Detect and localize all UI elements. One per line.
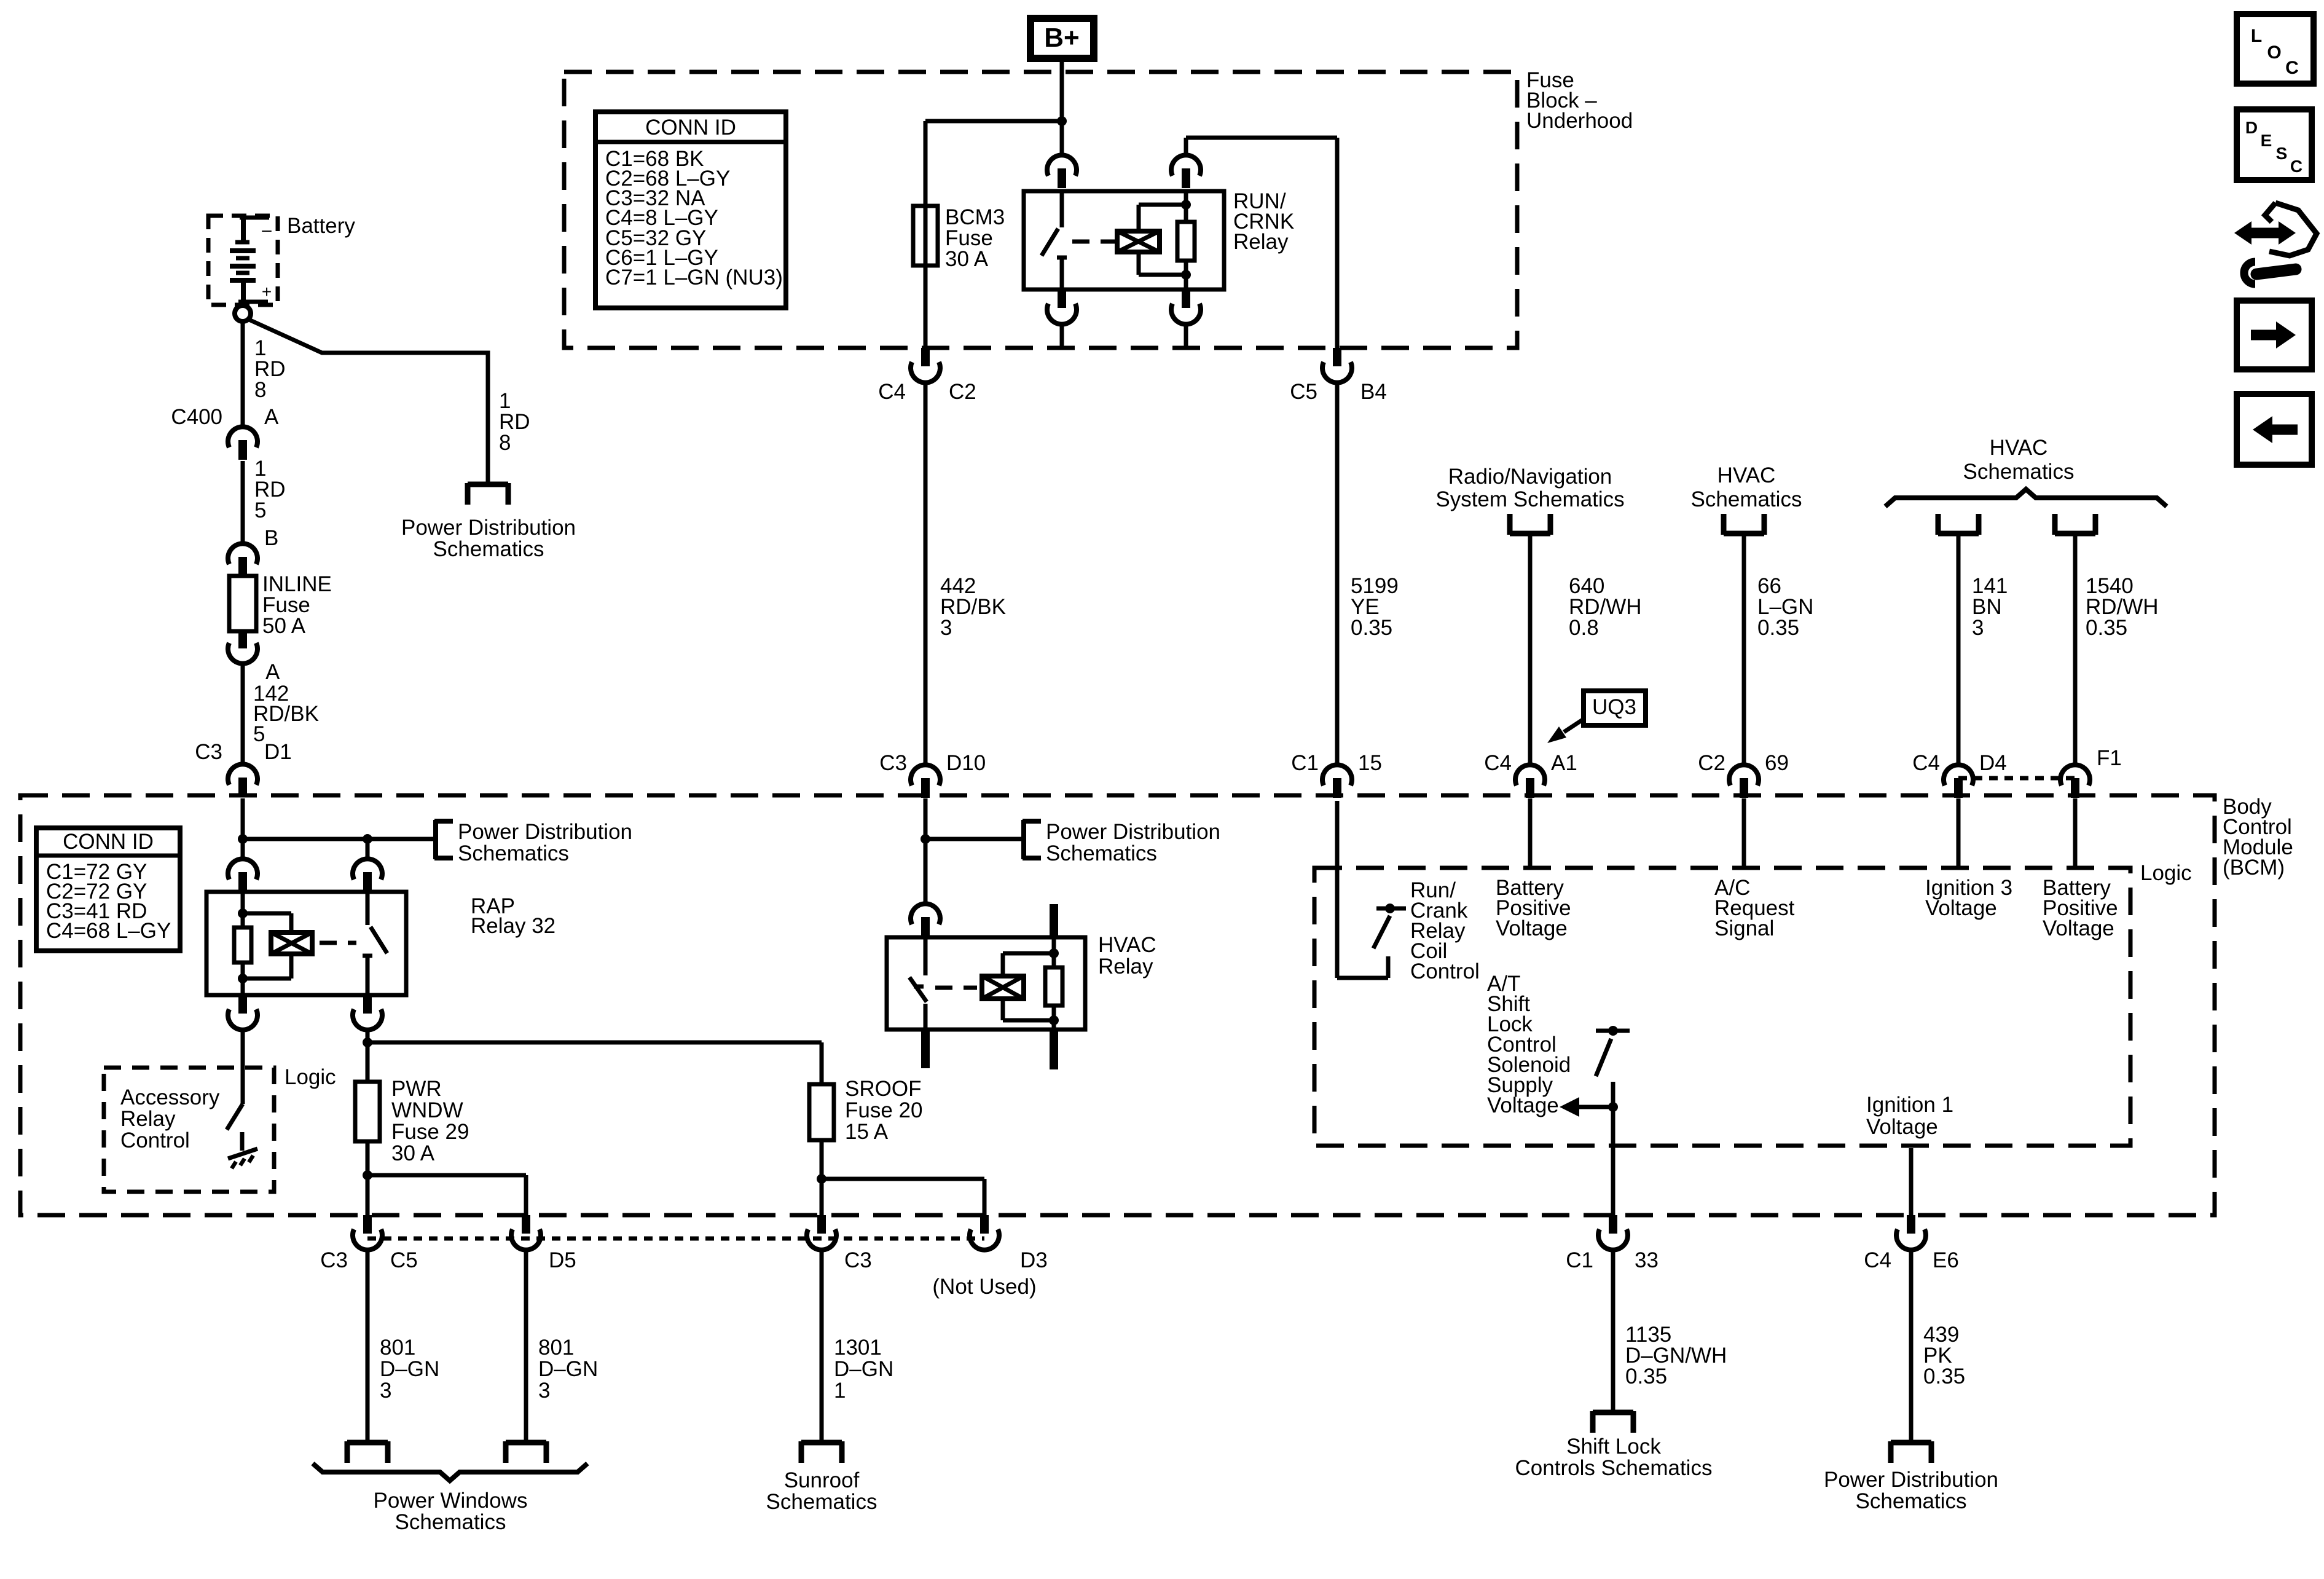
svg-text:15: 15: [1358, 751, 1382, 775]
svg-text:S: S: [2276, 144, 2288, 163]
icon next-page box: [2237, 301, 2312, 369]
svg-text:C: C: [2290, 157, 2302, 176]
wire RAP right down: [366, 1028, 370, 1082]
wire BCM3 fuse drop: [924, 121, 928, 348]
svg-text:3: 3: [940, 616, 952, 640]
node RAP resistor top: [238, 908, 248, 918]
svg-text:(BCM): (BCM): [2223, 856, 2285, 880]
dotted line C4 connector D4-F1: [1958, 776, 2075, 781]
relay coil (X box): [1117, 231, 1160, 252]
RAP coil dashed link: [320, 941, 356, 945]
svg-text:0.35: 0.35: [2086, 616, 2127, 640]
svg-text:(Not Used): (Not Used): [932, 1275, 1036, 1299]
svg-text:D10: D10: [946, 751, 986, 775]
inner logic dashed box: [1314, 868, 2130, 1146]
HVAC coil dashed link: [935, 986, 977, 990]
svg-text:C4: C4: [878, 380, 906, 404]
connector C3|C5 (cup): [363, 1215, 372, 1234]
wire battery positive voltage (F1): [2073, 798, 2078, 868]
svg-text:Underhood: Underhood: [1526, 109, 1633, 133]
svg-text:B4: B4: [1360, 380, 1387, 404]
connector C3|D10 (dome): [911, 765, 940, 786]
svg-text:50 A: 50 A: [262, 614, 306, 638]
HVAC bottom-right stub pin: [1050, 1030, 1058, 1069]
termination staple 439: [1891, 1440, 1931, 1446]
connector C5|B4: [1333, 348, 1341, 366]
source staple 141: [1938, 531, 1979, 537]
source staple HVAC: [1724, 531, 1764, 537]
svg-text:F1: F1: [2097, 746, 2122, 770]
relay right pin wire: [1184, 191, 1188, 222]
svg-text:Power Windows: Power Windows: [374, 1489, 528, 1513]
relay coil top link: [1137, 205, 1141, 231]
node PWR WNDW / SROOF junction: [363, 1038, 372, 1047]
svg-text:–: –: [262, 220, 272, 239]
offpage Power Distribution (RAP): [433, 820, 438, 859]
svg-text:3: 3: [1972, 616, 1984, 640]
connector HVAC pin top-left (dome): [911, 904, 940, 924]
svg-text:Battery: Battery: [287, 214, 355, 238]
svg-text:SROOF: SROOF: [845, 1077, 921, 1101]
relay switch blade: [1042, 229, 1058, 256]
wire RAP right pin drop: [366, 839, 370, 860]
connector relay pin 86 (dome): [1047, 155, 1077, 176]
relay coil dashed link: [1072, 240, 1115, 244]
relay resistor: [1177, 222, 1195, 261]
node junction B+/BCM3: [1057, 116, 1067, 126]
svg-text:801: 801: [380, 1336, 415, 1360]
svg-text:+: +: [262, 282, 272, 301]
wire ignition 3 (D4): [1957, 798, 1961, 868]
wire 801 right: [524, 1248, 528, 1443]
wire B+ feed: [1060, 62, 1064, 156]
connector C400 (dome): [228, 427, 257, 447]
wire 1540 RD/WH: [2073, 534, 2078, 766]
RAP resistor: [234, 927, 251, 963]
battery positive B+ terminal box: [1030, 18, 1094, 58]
source staple 1540: [2055, 531, 2095, 537]
svg-text:5: 5: [253, 722, 265, 746]
svg-text:C4: C4: [1864, 1248, 1891, 1272]
accessory switch stub: [240, 1132, 245, 1151]
wire C400 to B: [241, 461, 245, 545]
svg-text:UQ3: UQ3: [1592, 695, 1636, 719]
svg-text:Voltage: Voltage: [2043, 916, 2114, 940]
wire A/C request (69): [1742, 798, 1746, 868]
svg-text:L: L: [2251, 26, 2262, 46]
fuse PWR WNDW 29: [355, 1082, 380, 1141]
connector C4|D4 (dome): [1944, 765, 1973, 786]
connector RAP bottom left (cup): [238, 995, 247, 1014]
svg-text:A: A: [264, 405, 279, 429]
BCM dashed box: [20, 795, 2215, 1215]
wire to power distribution (HVAC): [925, 837, 1024, 841]
HVAC switch upper stub: [924, 937, 928, 975]
svg-text:PWR: PWR: [391, 1077, 442, 1101]
HVAC resistor: [1045, 967, 1062, 1006]
svg-text:801: 801: [538, 1336, 574, 1360]
wire 141 BN: [1957, 534, 1961, 766]
accessory relay control dashed box: [104, 1068, 274, 1192]
svg-text:Relay: Relay: [120, 1107, 176, 1131]
battery dashed box: [208, 216, 278, 305]
svg-text:30 A: 30 A: [391, 1141, 435, 1165]
svg-text:B: B: [264, 526, 278, 550]
icon DESC box: [2237, 109, 2312, 180]
svg-text:C3: C3: [320, 1248, 348, 1272]
svg-text:Voltage: Voltage: [1866, 1115, 1938, 1139]
UQ3 option box: [1584, 691, 1646, 725]
wire fuse to C3|D1: [241, 662, 245, 765]
svg-text:33: 33: [1635, 1248, 1659, 1272]
svg-text:Logic: Logic: [2140, 861, 2192, 885]
accessory switch blade: [227, 1104, 243, 1130]
svg-text:C5: C5: [1290, 380, 1317, 404]
wire Ignition 1: [1909, 1148, 1914, 1215]
svg-text:Schematics: Schematics: [1963, 460, 2075, 484]
brace power windows: [313, 1463, 587, 1481]
HVAC coil bottom link: [1001, 999, 1005, 1020]
svg-text:System Schematics: System Schematics: [1435, 487, 1624, 511]
wire 442 RD/BK: [924, 382, 928, 766]
node PWR WNDW junction: [363, 1170, 372, 1180]
svg-text:A1: A1: [1551, 751, 1577, 775]
node RAP right junction: [363, 834, 372, 844]
RAP coil top link: [243, 912, 291, 916]
svg-text:0.8: 0.8: [1569, 616, 1599, 640]
RAP switch lower stub: [366, 956, 370, 995]
svg-text:A: A: [265, 660, 280, 684]
HVAC switch lower stub: [924, 1004, 928, 1030]
svg-text:15 A: 15 A: [845, 1120, 889, 1144]
svg-text:Accessory: Accessory: [120, 1085, 220, 1109]
wire battery to node: [241, 304, 245, 307]
wire A/T solenoid supply: [1611, 1082, 1615, 1215]
svg-text:C4: C4: [1484, 751, 1512, 775]
svg-text:Control: Control: [120, 1128, 190, 1152]
svg-text:HVAC: HVAC: [1098, 933, 1156, 957]
connector D3 not used (cup): [980, 1215, 989, 1234]
svg-text:Schematics: Schematics: [766, 1490, 877, 1514]
svg-text:E: E: [2261, 131, 2272, 150]
svg-text:O: O: [2267, 42, 2281, 63]
connector relay pin 87 (cup): [1182, 289, 1190, 308]
fuse BCM3 30A: [913, 206, 938, 266]
svg-text:E6: E6: [1933, 1248, 1959, 1272]
RAP coil bottom link: [289, 954, 294, 979]
connector C1|33 (cup): [1609, 1215, 1617, 1234]
connector F1 (dome): [2060, 765, 2090, 786]
offpage Power Distribution (battery): [468, 482, 508, 487]
svg-text:Radio/Navigation: Radio/Navigation: [1448, 465, 1612, 489]
svg-text:Sunroof: Sunroof: [784, 1468, 860, 1492]
wire below PWR WNDW fuse: [366, 1141, 370, 1215]
RAP switch upper stub: [366, 892, 370, 925]
wire C3|D1 into BCM: [241, 798, 245, 860]
node battery splice (circle): [235, 305, 251, 321]
wire C1|15 into BCM: [1335, 801, 1340, 978]
wire relay pin30 stub: [1060, 324, 1064, 348]
svg-text:C3: C3: [879, 751, 907, 775]
node HVAC powerdist junction: [921, 834, 930, 844]
svg-text:Signal: Signal: [1714, 916, 1774, 940]
svg-text:Voltage: Voltage: [1925, 896, 1997, 920]
HVAC resistor wire: [1052, 937, 1056, 967]
svg-text:1: 1: [834, 1379, 846, 1403]
svg-text:C2: C2: [1698, 751, 1725, 775]
wire 801 left: [366, 1248, 370, 1443]
svg-text:D: D: [2245, 118, 2258, 137]
svg-text:HVAC: HVAC: [1990, 436, 2048, 460]
RAP coil (X box): [271, 932, 312, 954]
termination staple 1135: [1593, 1410, 1633, 1416]
svg-text:C3: C3: [844, 1248, 872, 1272]
svg-text:Logic: Logic: [285, 1065, 336, 1089]
svg-text:Voltage: Voltage: [1496, 916, 1568, 940]
svg-text:Shift Lock: Shift Lock: [1566, 1435, 1661, 1459]
run/crank switch L-wire: [1337, 976, 1388, 980]
svg-text:Fuse 29: Fuse 29: [391, 1120, 469, 1144]
svg-text:Relay 32: Relay 32: [471, 914, 555, 938]
RAP switch blade: [371, 927, 387, 953]
connector RAP pin right (dome): [353, 859, 382, 880]
termination staple 801 left: [347, 1440, 388, 1446]
fuse INLINE bottom pin+cup: [238, 631, 247, 648]
svg-text:3: 3: [538, 1379, 550, 1403]
wire 439: [1909, 1248, 1914, 1443]
svg-text:B+: B+: [1044, 23, 1079, 53]
wire to SROOF fuse: [367, 1041, 822, 1045]
wire 1135: [1611, 1248, 1615, 1412]
ground (accessory): [228, 1149, 257, 1159]
svg-text:8: 8: [254, 378, 266, 402]
svg-text:Voltage: Voltage: [1487, 1093, 1559, 1117]
node HVAC coil bottom: [1049, 1015, 1059, 1025]
svg-text:Schematics: Schematics: [1856, 1489, 1967, 1513]
svg-text:69: 69: [1765, 751, 1789, 775]
relay coil bottom link: [1137, 252, 1141, 275]
relay HVAC box: [887, 937, 1085, 1030]
fuse INLINE 50A: [229, 576, 256, 631]
svg-text:Power Distribution: Power Distribution: [1046, 820, 1220, 844]
wire 1301: [820, 1248, 824, 1443]
connector C4|E6 (cup): [1907, 1215, 1915, 1234]
svg-text:Schematics: Schematics: [458, 841, 569, 865]
svg-text:Power Distribution: Power Distribution: [1824, 1468, 1998, 1492]
svg-text:D4: D4: [1979, 751, 2007, 775]
svg-text:D–GN: D–GN: [380, 1357, 439, 1381]
A/T arrow: [1578, 1105, 1613, 1109]
svg-text:Control: Control: [1410, 959, 1480, 983]
A/T contact dot: [1608, 1026, 1618, 1036]
svg-text:1301: 1301: [834, 1336, 882, 1360]
svg-text:C1: C1: [1566, 1248, 1593, 1272]
run/crank contact dot: [1385, 904, 1395, 913]
svg-text:30 A: 30 A: [945, 247, 989, 271]
icon LOC box: [2237, 14, 2314, 84]
svg-text:D1: D1: [264, 740, 292, 764]
node RAP resistor bottom: [238, 974, 248, 983]
relay switch lower stub: [1060, 258, 1064, 289]
svg-text:C1: C1: [1291, 751, 1319, 775]
wire relay coil feed: [1184, 138, 1188, 156]
node A/T arrow junction: [1608, 1102, 1618, 1112]
node HVAC coil top: [1049, 948, 1059, 958]
connector C4|A1 (dome): [1515, 765, 1545, 786]
svg-text:WNDW: WNDW: [391, 1098, 463, 1122]
node coil-resistor bottom: [1181, 270, 1191, 280]
wire relay pin87 stub: [1184, 324, 1188, 348]
svg-text:5: 5: [254, 498, 266, 522]
HVAC top-right stub pin: [1050, 904, 1058, 937]
UQ3 arrow: [1564, 719, 1584, 732]
svg-text:0.35: 0.35: [1625, 1364, 1667, 1388]
node RAP left junction: [238, 834, 248, 844]
connector D5 (cup): [522, 1215, 530, 1234]
fuse SROOF 20: [809, 1084, 834, 1140]
brace HVAC schematics: [1885, 489, 2167, 506]
connector RAP bottom right (cup): [363, 995, 372, 1014]
svg-text:C3: C3: [195, 740, 222, 764]
HVAC bottom-left stub pin: [921, 1030, 930, 1068]
connector C3 sunroof (cup): [817, 1215, 826, 1234]
svg-text:Relay: Relay: [1098, 955, 1153, 979]
svg-text:Schematics: Schematics: [1046, 841, 1157, 865]
CONN ID table (BCM): [36, 828, 180, 951]
wire RAP left to accessory switch: [241, 1028, 245, 1104]
connector relay pin 85 (dome): [1171, 155, 1201, 176]
svg-text:C4=68 L–GY: C4=68 L–GY: [46, 919, 171, 943]
wire 66 L-GN: [1742, 534, 1746, 766]
wire 5199 YE: [1335, 382, 1340, 766]
wire diagonal branch: [248, 319, 488, 482]
HVAC coil top link: [1001, 953, 1005, 976]
icon prev-page box: [2237, 394, 2312, 465]
relay RUN/CRNK box: [1024, 191, 1224, 289]
svg-text:Controls Schematics: Controls Schematics: [1515, 1456, 1713, 1480]
relay RAP box: [206, 892, 406, 995]
node SROOF junction: [817, 1174, 826, 1184]
svg-text:D5: D5: [549, 1248, 576, 1272]
connector RAP pin left (dome): [228, 859, 257, 880]
svg-text:0.35: 0.35: [1923, 1364, 1965, 1388]
wire branch to D3: [822, 1177, 984, 1181]
svg-text:Ignition 1: Ignition 1: [1866, 1093, 1953, 1117]
svg-text:Schematics: Schematics: [395, 1510, 506, 1534]
dotted line connector C5-D5-C3-D3: [367, 1237, 984, 1241]
svg-text:CONN ID: CONN ID: [63, 830, 154, 854]
offpage Power Distribution (HVAC): [1021, 820, 1026, 859]
connector C2|69 (dome): [1729, 765, 1759, 786]
wire branch to BCM3 fuse: [925, 119, 1062, 124]
svg-text:D–GN: D–GN: [538, 1357, 598, 1381]
svg-text:8: 8: [499, 431, 511, 455]
svg-text:Fuse 20: Fuse 20: [845, 1098, 922, 1122]
A/T switch blade: [1596, 1039, 1611, 1076]
connector B (dome): [228, 543, 257, 564]
svg-text:C400: C400: [171, 405, 222, 429]
wire node to C400: [241, 321, 245, 428]
connector relay pin 30 (cup): [1058, 289, 1066, 308]
svg-text:Power Distribution: Power Distribution: [401, 516, 576, 540]
svg-text:D–GN: D–GN: [834, 1357, 893, 1381]
wire battery positive voltage (A1): [1528, 798, 1533, 868]
svg-text:Schematics: Schematics: [1691, 487, 1802, 511]
svg-text:Power Distribution: Power Distribution: [458, 820, 632, 844]
wire branch to D5: [367, 1173, 526, 1178]
termination staple 801 right: [506, 1440, 546, 1446]
svg-text:C5: C5: [390, 1248, 418, 1272]
connector C4|C2: [921, 348, 930, 366]
connector C1|15 (dome): [1322, 765, 1352, 786]
fuse block dashed box: [564, 72, 1517, 348]
svg-text:C4: C4: [1912, 751, 1940, 775]
relay switch upper stub: [1060, 191, 1064, 227]
svg-text:D3: D3: [1020, 1248, 1048, 1272]
svg-text:Schematics: Schematics: [433, 537, 544, 561]
svg-text:CONN ID: CONN ID: [645, 116, 736, 140]
svg-text:C2: C2: [949, 380, 976, 404]
svg-text:C: C: [2285, 58, 2299, 78]
battery symbol: [240, 216, 269, 220]
svg-text:C7=1 L–GN (NU3): C7=1 L–GN (NU3): [605, 266, 783, 289]
HVAC coil (X box): [982, 976, 1024, 999]
svg-text:0.35: 0.35: [1757, 616, 1799, 640]
svg-text:3: 3: [380, 1379, 391, 1403]
HVAC switch blade: [909, 977, 927, 1002]
node coil-resistor top: [1181, 200, 1191, 210]
connector C3|D1 (dome): [228, 764, 257, 785]
termination staple 1301: [801, 1440, 842, 1446]
run/crank switch blade: [1373, 916, 1390, 948]
source staple Radio/Nav: [1510, 531, 1550, 537]
RAP resistor wire: [241, 892, 245, 927]
icon wrench/arrows: [2269, 203, 2317, 256]
svg-text:HVAC: HVAC: [1717, 463, 1776, 487]
wire to power distribution (RAP): [243, 837, 436, 841]
wire C3|D10 into BCM: [924, 798, 928, 905]
wire below SROOF fuse: [820, 1140, 824, 1215]
svg-text:0.35: 0.35: [1351, 616, 1392, 640]
svg-text:Relay: Relay: [1233, 230, 1289, 254]
wire 640 RD/WH: [1528, 534, 1533, 766]
CONN ID table (fuse block): [595, 112, 786, 308]
